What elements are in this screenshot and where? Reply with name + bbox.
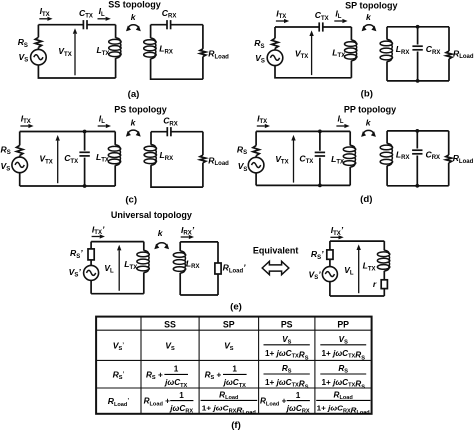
wire: (e) mid loop right lower [217,274,219,295]
wire: (e) mid loop right upper [217,242,219,263]
wire: (c) RX right upper [202,132,204,155]
resistor RS' box (e left) [88,249,94,260]
wire: (d) RX right upper [448,131,450,155]
resistor RLoad' box (e mid) [215,263,221,274]
wire: (c) TX middle branch for CTX [84,132,86,187]
wire: (c) TX top + bottom [20,132,116,187]
capacitor CRX (c) [166,127,168,136]
wire: (e) left loop left upper [90,242,92,249]
wire: (a) TX right lower [115,58,117,78]
wire: (b) RX outer loop [387,27,449,81]
resistor RS (a) [35,37,41,47]
current arrow ITX (a) [39,18,47,20]
current arrow IL (b) [334,20,342,22]
wire: (b) TX right lower [350,61,352,78]
wire: (e) right loop left upper [329,241,331,250]
wire: (b) RX left upper [386,27,388,40]
svg-text:PS: PS [281,319,293,329]
svg-text:(d): (d) [360,194,372,205]
capacitor CRX (a) [166,20,168,29]
AC source VS (a) [31,49,47,65]
junction dot (b) top [416,25,420,29]
wire: (e) right loop top + bottom [330,241,384,296]
AC source VS' (e left) [84,265,99,280]
AC source VS (d) [248,157,264,173]
junction dot (b) bottom [416,79,420,83]
svg-text:VS’: VS’ [113,340,124,352]
wire: (d) RX left lower [386,166,388,186]
coupling arrow k (d) [364,130,374,133]
junction dot (d) RX bottom [415,184,419,188]
inductor LTX (b) [345,42,357,47]
wire: (e) mid loop left lower [179,273,181,295]
wire: (b) RX right lower [448,59,450,81]
wire: (c) TX right upper [114,132,116,145]
wire: (d) TX middle branch for CTX [319,131,321,185]
wire: (b) TX right upper [350,27,352,40]
svg-text:SP: SP [223,319,235,329]
svg-text:SS topology: SS topology [108,0,161,9]
current arrow IL (c) [98,125,106,127]
current arrow IL (a) [98,18,106,20]
wire: (c) TX right lower [114,165,116,186]
resistor RLoad (a) [200,49,206,57]
wire: (e) mid loop left upper [179,242,181,251]
wire: (e) right loop right upper [383,241,385,250]
coupling arrow k (c) [128,130,138,133]
resistor RS (b) [272,38,278,48]
wire: (c) RX left lower + bottom [151,165,203,187]
capacitor CTX (c) [79,151,89,153]
svg-text:(c): (c) [125,195,137,206]
voltage arrow VTX (c) [57,141,59,184]
svg-text:1: 1 [296,391,301,400]
wire: (d) TX top + bottom [256,131,350,185]
wire: (b) TX left mid [274,48,276,50]
wire: (d) TX right lower [349,167,351,186]
capacitor CTX (a) [82,20,84,29]
svg-text:PP: PP [337,319,349,329]
wire: (c) RX top with gap for CRX [151,131,203,133]
inductor LTX (a) [109,39,121,44]
wire: (b) TX top with gap for CTX [275,26,351,28]
wire: (e) left loop left lower [90,280,92,293]
wire: (e) left loop left mid [90,260,92,266]
resistor RLoad (d) [446,155,452,163]
junction dot (c) top [83,130,87,134]
wire: (d) TX right upper [349,131,351,145]
wire: (e) mid loop top + bottom [180,242,218,295]
AC source VS (b) [267,50,283,66]
wire: (c) TX left upper [19,132,21,146]
voltage arrow VTX (d) [293,141,295,183]
table inner horizontal lines [96,329,372,331]
voltage arrow VTX (a) [74,34,76,76]
table frame (f) [96,317,372,414]
coupling arrow k (b) [364,25,374,28]
wire: (a) RX left lower + bottom [151,59,203,80]
svg-text:(a): (a) [128,89,140,100]
current arrow ITX (c) [20,125,28,127]
resistor RLoad (b) [446,51,452,59]
inductor LTX (c) [108,146,120,151]
current arrow IRX' (e mid) [181,236,189,238]
wire: (e) left loop right lower [143,272,145,293]
current arrow ITX' (e left) [92,236,100,238]
AC source VS' (e right) [322,267,337,282]
wire: (a) TX left upper [37,25,39,38]
wire: (e) right loop right lower [383,289,385,296]
junction dot (d) TX bottom [318,184,322,188]
svg-text:PS topology: PS topology [114,104,167,114]
svg-text:RS’: RS’ [113,369,125,381]
junction dot (d) RX top [415,129,419,133]
wire: (b) TX left upper [274,27,276,38]
voltage arrow VL (e left) [118,250,120,290]
wire: (a) TX top with gap for CTX [38,24,115,26]
wire: (b) RX right upper [448,27,450,51]
inductor LRX (d) [380,145,392,150]
wire: (d) RX left upper [386,131,388,144]
capacitor CTX (b) [318,22,320,31]
wire: (e) right loop left mid [329,259,331,266]
svg-text:(e): (e) [230,302,242,313]
wire: (d) RX right lower [448,163,450,186]
wire: (c) RX left upper [150,132,152,145]
wire: (c) TX left lower [19,173,21,186]
current arrow ITX (b) [276,20,284,22]
junction dot (c) bottom [83,184,87,188]
coupling arrow k (a) [128,25,138,28]
resistor r box (e right) [381,280,387,289]
inductor LRX (b) [380,41,392,46]
inductor LRX (c) [144,146,156,151]
inductor LRX (e mid) [173,253,185,258]
svg-text:(f): (f) [231,420,241,430]
capacitor CRX (b) [412,45,422,47]
voltage arrow VL (e right) [358,250,360,293]
AC source VS (c) [12,157,28,173]
wire: (c) RX right lower [202,163,204,187]
wire: (d) TX left mid [255,156,257,158]
svg-text:Universal topology: Universal topology [111,210,192,220]
wire: (e) right loop right mid [383,271,385,280]
wire: (b) TX left lower + bottom [275,66,351,78]
resistor RS' box (e right) [327,250,333,259]
wire: (a) TX left mid [37,47,39,49]
wire: (a) RX right upper [202,25,204,49]
current arrow ITX' (e right) [330,236,338,238]
svg-text:1: 1 [232,365,237,374]
current arrow ITX (d) [257,125,265,127]
inductor LRX (a) [144,40,156,45]
svg-text:PP topology: PP topology [344,104,396,114]
inductor LTX (e left) [137,252,149,257]
current arrow IL (d) [336,125,344,127]
wire: (b) RX middle branch [417,27,419,81]
resistor RS (d) [253,146,259,156]
svg-text:SP topology: SP topology [345,0,397,10]
wire: (a) RX top with gap for CRX [151,24,203,26]
coupling arrow k (e) [157,243,167,246]
capacitor CRX (d) [412,149,422,151]
wire: (d) RX middle branch [416,131,418,186]
svg-text:1: 1 [174,365,179,374]
wire: (b) RX left lower [386,61,388,81]
wire: (d) RX top + bottom [387,131,449,186]
wire: (d) TX left upper [255,131,257,145]
svg-text:SS: SS [164,319,176,329]
resistor RS (c) [17,145,23,155]
svg-text:1: 1 [179,391,184,400]
inductor LTX (d) [343,147,355,152]
wire: (a) RX right lower [202,57,204,80]
wire: (e) left loop top + bottom [91,242,144,294]
resistor RLoad (c) [200,155,206,163]
wire: (d) TX left lower [255,173,257,185]
wire: (c) TX left mid [19,156,21,158]
inductor LTX (e right) [377,252,389,257]
wire: (a) RX left upper [150,25,152,39]
wire: (e) left loop right upper [143,242,145,251]
table inner vertical lines [140,317,142,414]
wire: (a) TX left lower + bottom [38,65,115,78]
capacitor CTX (d) [315,151,325,153]
junction dot (d) TX top [318,130,322,134]
voltage arrow VTX (b) [311,36,313,75]
wire: (e) right loop left lower [329,282,331,296]
equivalence double arrow [262,261,289,274]
svg-text:(b): (b) [361,89,373,100]
wire: (a) TX right upper [115,25,117,38]
svg-text:Equivalent: Equivalent [253,245,299,255]
